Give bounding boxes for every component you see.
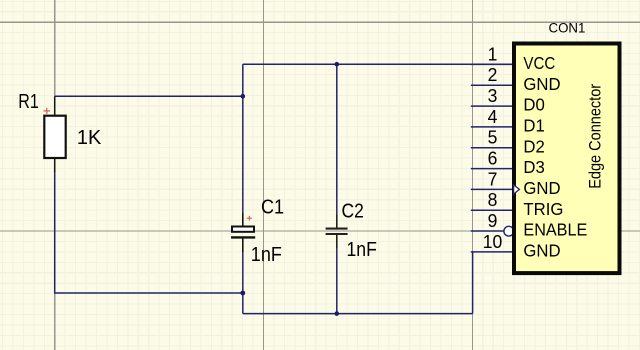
- svg-text:D0: D0: [523, 94, 544, 115]
- svg-text:GND: GND: [523, 240, 560, 261]
- svg-text:D1: D1: [523, 115, 544, 136]
- wire VCC top net: [55, 64, 513, 313]
- svg-text:8: 8: [488, 190, 498, 211]
- svg-text:GND: GND: [523, 177, 560, 198]
- pin 7 arrow: [514, 185, 520, 194]
- svg-text:10: 10: [483, 231, 503, 252]
- svg-text:C1: C1: [261, 196, 284, 218]
- svg-text:1K: 1K: [77, 127, 102, 149]
- svg-text:3: 3: [488, 86, 498, 107]
- svg-text:ENABLE: ENABLE: [523, 220, 587, 240]
- wire bottom horizontal: [243, 313, 473, 315]
- svg-text:2: 2: [488, 65, 498, 86]
- svg-text:TRIG: TRIG: [523, 198, 563, 219]
- junction node C2 top: [335, 62, 340, 67]
- wire C1 bottom vertical: [242, 252, 244, 293]
- wire riser to pin 10: [472, 252, 474, 314]
- svg-text:D2: D2: [523, 136, 544, 157]
- wire vertical drop to R1 net: [242, 64, 244, 96]
- svg-text:CON1: CON1: [549, 20, 586, 35]
- resistor R1: [44, 96, 66, 172]
- wire C2 top vertical: [336, 64, 338, 215]
- capacitor C2: [326, 215, 348, 248]
- svg-text:1nF: 1nF: [347, 239, 377, 262]
- junction node R1/C1 top: [241, 94, 246, 99]
- capacitor C1: [231, 213, 255, 252]
- svg-text:R1: R1: [18, 89, 39, 112]
- junction node R1/C1 bottom: [240, 291, 245, 296]
- svg-text:1: 1: [488, 44, 498, 65]
- svg-text:1nF: 1nF: [251, 244, 282, 266]
- wire R1 bottom vertical and horizontal: [55, 171, 243, 293]
- wire pin stubs CON1: [471, 64, 513, 252]
- svg-text:4: 4: [488, 106, 498, 127]
- wire C2 bottom vertical: [336, 248, 338, 314]
- svg-text:Edge Connector: Edge Connector: [587, 84, 605, 189]
- svg-text:5: 5: [488, 127, 498, 148]
- svg-text:6: 6: [488, 148, 498, 169]
- svg-text:C2: C2: [342, 200, 364, 223]
- svg-text:GND: GND: [523, 73, 560, 94]
- svg-text:9: 9: [488, 211, 498, 232]
- connector CON1 body: [514, 44, 620, 274]
- svg-text:VCC: VCC: [523, 53, 555, 74]
- wire R1 top horizontal: [55, 95, 243, 97]
- svg-text:7: 7: [488, 169, 498, 190]
- svg-text:D3: D3: [523, 157, 544, 178]
- wire top horizontal to pin 1: [243, 63, 513, 65]
- wire C1 top vertical: [242, 96, 244, 213]
- junction node C2 bottom: [335, 311, 340, 316]
- wire bottom bus vertical: [242, 293, 244, 314]
- pin 9 inverted bubble: [504, 226, 514, 236]
